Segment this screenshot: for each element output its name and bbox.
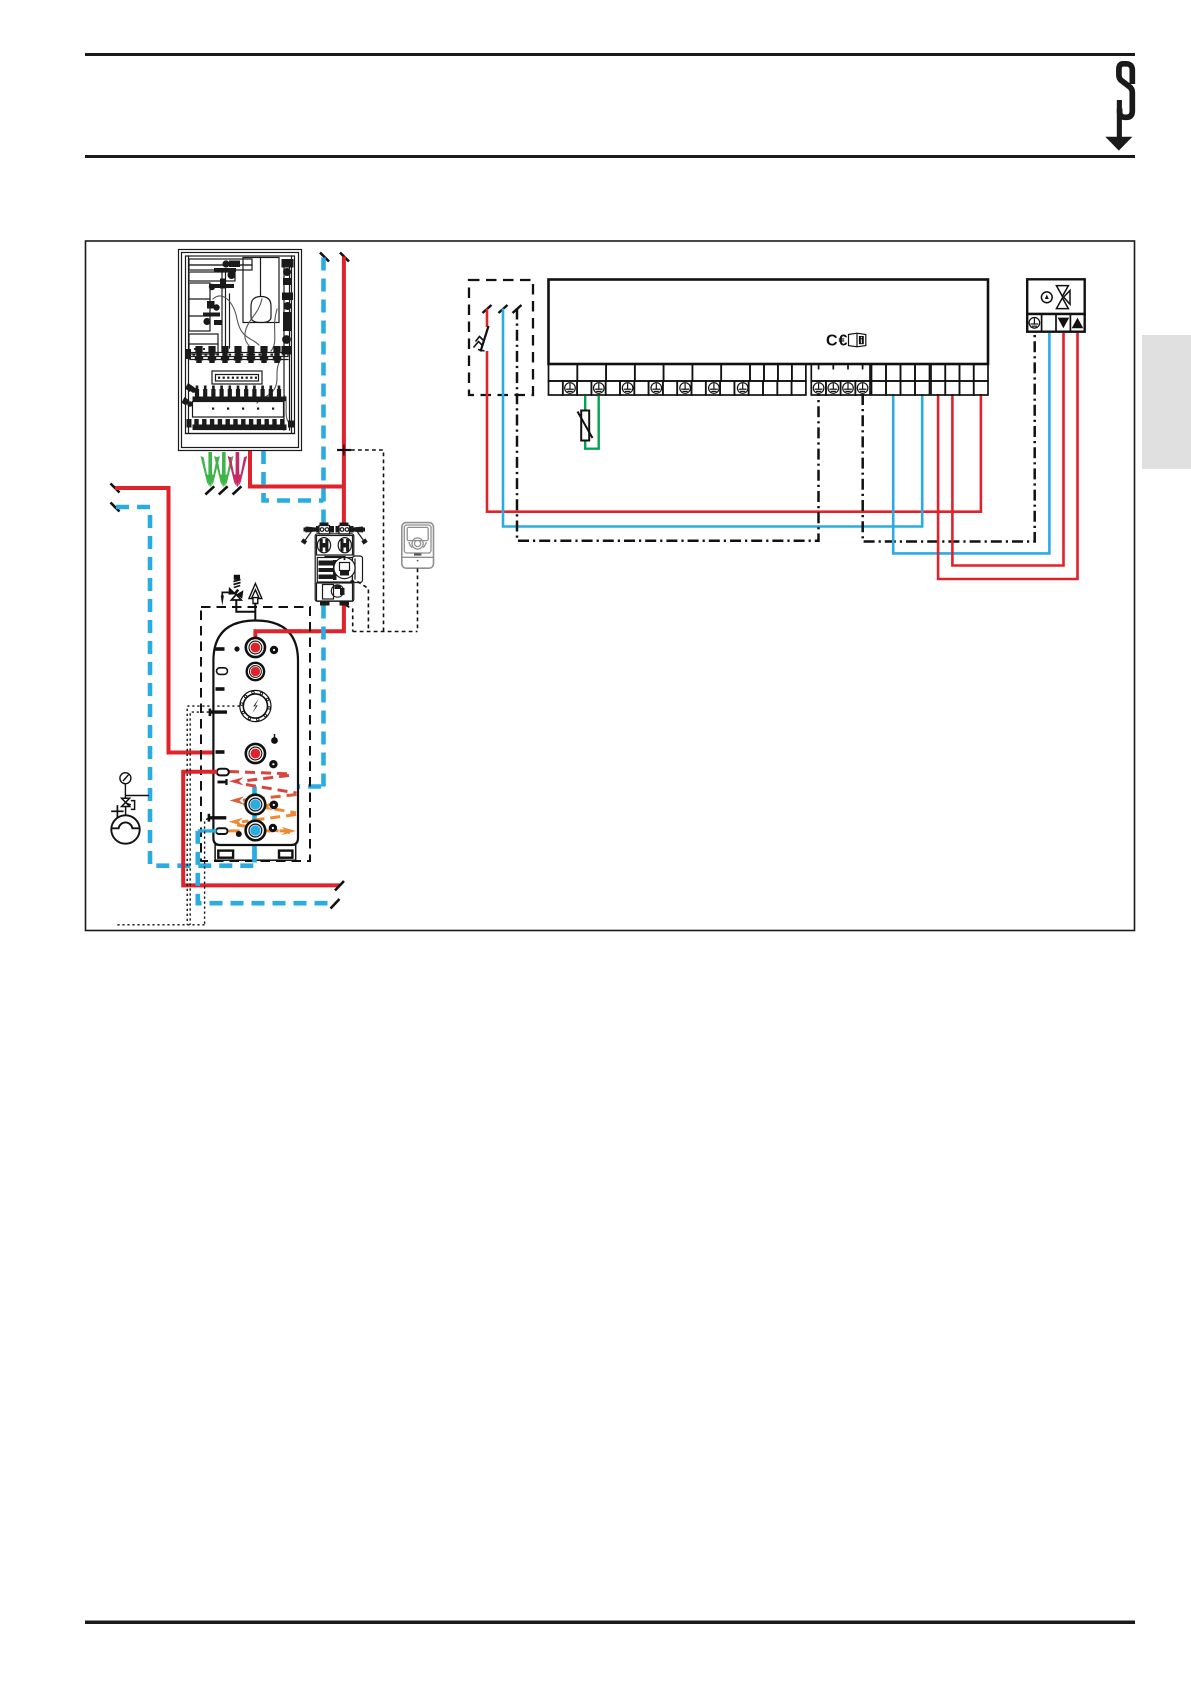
red pipe tank to heat source [183,772,339,886]
boiler lower manifold [195,386,199,397]
terminal strip valve [931,364,988,395]
tank second red cap [247,663,264,680]
red wire to valve box (open) [938,333,1077,579]
blue flow pipe (riser) [321,258,326,528]
dotted wire CAR [417,569,419,632]
dotted sensor wire mid well [190,712,209,925]
earth terminals [565,383,748,394]
terminal strip aux [811,364,870,395]
shutoff valve (vertical) [122,798,135,809]
cut tick blue riser top [320,253,329,262]
ext red wire lower + run to terminal [487,351,981,512]
valve motor icon [1041,286,1070,309]
pump group assembly [301,523,368,606]
gauge link line [125,795,149,797]
tank stub with bar [218,779,227,785]
blue pipe tank to heat source [198,831,336,903]
tank flow arrows orange [229,804,297,833]
boiler terminal box [549,280,989,365]
boiler expansion vessel [251,297,271,323]
top rule [85,53,1135,56]
blue short pipe into port [198,829,217,832]
CAR remote control [402,523,434,569]
outdoor probe wires [584,396,586,410]
ext dash-dot wire [517,309,819,541]
cut tick left red [111,484,120,493]
outdoor probe (thermistor) [581,411,589,441]
tank thermometer [240,690,271,721]
safety valve discharge pipe [222,592,230,597]
header rule [85,155,1135,158]
ext blue wire [503,309,922,527]
boiler bottom manifold [194,419,198,425]
terminal strip relay [872,364,930,395]
mixing section [317,558,352,583]
dotted sensor wire thermometer [116,706,240,925]
red pipe pump to tank top [255,606,344,632]
terminal strip main [549,364,806,395]
drain cross [111,805,123,817]
lower pump [317,583,353,601]
cut tick red riser top [340,253,349,262]
dash-dot wire to valve box [863,333,1035,542]
flue intake arrow 2 (green) [214,452,233,488]
boiler unit (wall-hung boiler, open casing) [179,250,302,451]
dotted wire pump foot [351,581,369,632]
red pipe system flow (left) [115,488,245,753]
cut tick left blue [111,503,120,512]
boiler upper manifold [190,353,288,357]
dotted wire pump bottom [346,606,353,632]
safety valve body [229,587,244,599]
cut tick ext dashdot [513,305,522,313]
boiler flue panel [243,258,279,323]
check valve housing [317,536,353,556]
svg-text:C€: C€ [826,333,848,350]
sensor tap on red riser [343,445,345,456]
tank white oval port (blue) [216,828,228,834]
manual book icon [849,333,866,347]
right valve handle [353,527,366,533]
expansion vessel [111,815,139,843]
dotted bus [353,631,418,633]
diagram frame [86,241,1135,931]
boiler terminal strip [212,371,262,384]
storage tank body [213,621,298,846]
tank sensor well mid [210,709,227,716]
side tab [1142,335,1191,469]
valve box earth cell [1029,318,1040,329]
tank flow arrows red-orange [243,795,297,801]
cut tick blue lower [331,899,340,909]
flue intake arrow (green) [201,452,220,488]
footer rule [85,1621,1135,1625]
dotted sensor wire low well [205,819,208,925]
pump group body [315,534,354,602]
tank blue cap lower [246,821,266,841]
tank white oval port (red) [217,769,229,776]
red flow pipe (riser) [342,257,346,528]
boiler gas valve cluster [209,260,240,290]
tank top red cap [246,638,265,657]
boiler plinth [186,433,295,435]
pressure gauge [120,773,131,799]
blue pipe pump down [321,606,326,787]
pump group right valve [336,523,354,533]
pump group left valve [316,523,334,533]
boiler hoses [213,296,289,423]
cut tick red lower [335,881,344,891]
air vent arrow [249,584,262,604]
boiler outer frame [179,250,302,451]
tank base [215,845,296,860]
blue pipe from boiler [264,451,324,501]
flue exhaust arrow (magenta) [228,452,247,488]
tank sensor well low [209,814,226,822]
dotted wire bottom run [116,924,205,926]
blue wire to valve box [893,333,1049,553]
tank small caps right [269,646,279,832]
tank flow arrows red [229,772,297,794]
cut tick ext red [483,305,492,313]
boiler top shelf [189,259,252,265]
valve box close triangle [1058,318,1070,329]
valve box open triangle [1072,318,1084,329]
tank pill port upper [217,668,228,675]
tank blue cap upper [246,795,266,815]
tank dashed boundary [201,607,310,861]
left valve handle [304,527,317,533]
ext red wire upper [486,309,489,328]
cut ticks under arrows [205,486,241,494]
blue pipe inside tank [252,787,257,866]
red pipe into tank top cap [255,631,302,639]
boiler pump right [282,259,294,355]
cut tick ext blue [499,305,508,313]
vent piping [236,600,255,612]
safety valve spring [234,576,241,588]
S-arrow section symbol [1105,64,1132,151]
boiler left panel [189,283,210,331]
tank stub marks [216,647,225,754]
dotted wire from tap [351,450,384,632]
tank mid red cap [246,744,265,763]
red pipe from boiler [250,451,344,487]
red wire to valve box (close) [952,333,1063,566]
pump group feet [320,602,349,606]
pump motor [353,556,363,583]
three-way valve box [1027,279,1085,314]
external connection dashed box [469,280,533,395]
switch contact [481,326,489,352]
blue pipe system return (left) [116,507,324,866]
boiler hydraulic block left [203,301,222,325]
